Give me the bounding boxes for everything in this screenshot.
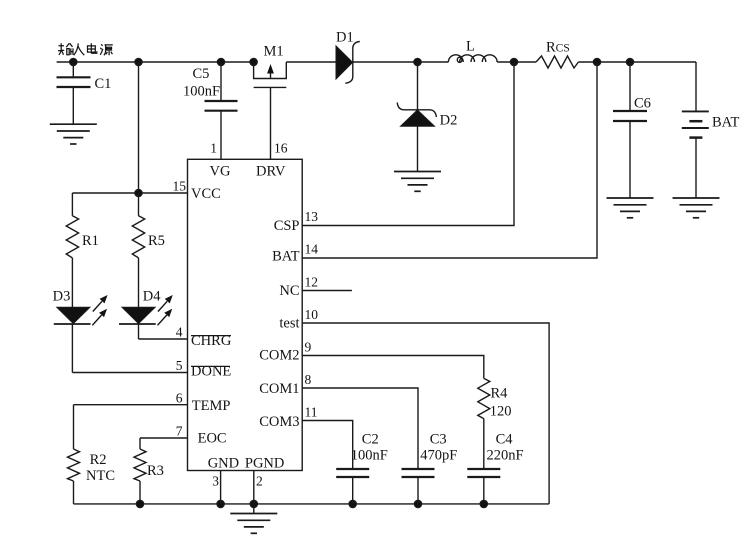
wire COM3 pin11 to C2 xyxy=(302,421,353,470)
svg-text:7: 7 xyxy=(176,424,183,439)
ground below PGND xyxy=(230,514,277,534)
源 xyxy=(100,44,103,55)
label 输入电源 (input power, drawn strokes) xyxy=(58,43,113,55)
overline DONE (active-low) xyxy=(191,365,230,367)
capacitor C5 xyxy=(220,62,222,101)
svg-text:R3: R3 xyxy=(147,463,164,479)
capacitor C1 xyxy=(72,62,74,77)
wire R5 to D4 xyxy=(138,258,140,307)
wire D4 to CHRG pin4 xyxy=(138,324,140,339)
svg-text:220nF: 220nF xyxy=(487,448,524,464)
svg-text:GND: GND xyxy=(208,455,239,471)
svg-text:C3: C3 xyxy=(430,432,447,448)
svg-text:COM1: COM1 xyxy=(259,381,299,397)
wire TEMP pin6 xyxy=(74,404,188,406)
node C6 branch junction xyxy=(626,58,633,65)
ground below battery xyxy=(673,198,720,218)
IC U1 box xyxy=(188,159,303,470)
svg-text:13: 13 xyxy=(305,209,319,224)
wire CSP pin13 to switch node xyxy=(302,62,514,226)
resistor R4 xyxy=(478,378,490,418)
svg-text:C1: C1 xyxy=(95,76,112,92)
svg-text:8: 8 xyxy=(305,372,312,387)
svg-text:11: 11 xyxy=(305,405,318,420)
diode D1 xyxy=(336,46,353,79)
LED D4 xyxy=(122,307,155,323)
node M1 source junction xyxy=(250,58,257,65)
wire L to RCS xyxy=(497,61,536,63)
wire VCC to R1 xyxy=(71,193,73,216)
svg-text:C2: C2 xyxy=(362,432,379,448)
battery BAT xyxy=(695,62,697,111)
输 xyxy=(58,43,64,55)
svg-text:BAT: BAT xyxy=(272,249,300,265)
resistor R3 xyxy=(134,449,146,481)
电 xyxy=(88,43,97,53)
svg-text:D3: D3 xyxy=(53,289,71,305)
capacitor C6 xyxy=(629,62,631,111)
svg-text:9: 9 xyxy=(305,340,312,355)
svg-text:CSP: CSP xyxy=(274,218,300,234)
LED D3 xyxy=(57,307,90,323)
svg-text:5: 5 xyxy=(176,358,183,373)
svg-text:14: 14 xyxy=(305,242,319,257)
wire C5 to VG pin1 xyxy=(220,111,222,160)
wire D1 to L xyxy=(353,61,449,63)
resistor R1 xyxy=(66,216,78,258)
svg-text:D4: D4 xyxy=(143,289,161,305)
svg-text:R4: R4 xyxy=(491,386,509,402)
resistor R5 xyxy=(132,216,144,258)
resistor R2 NTC xyxy=(68,449,80,481)
svg-text:R5: R5 xyxy=(148,233,165,249)
wire COM2 pin9 to R4 xyxy=(302,356,484,379)
inductor L xyxy=(448,55,497,62)
wire VCC branch vertical xyxy=(138,62,140,193)
svg-text:L: L xyxy=(466,39,475,55)
node VCC/R5 junction xyxy=(135,189,142,196)
svg-text:COM3: COM3 xyxy=(259,414,299,430)
wire top input rail xyxy=(57,61,254,63)
wire test pin10 loop xyxy=(302,323,549,504)
svg-text:EOC: EOC xyxy=(198,431,227,447)
svg-text:2: 2 xyxy=(256,474,263,489)
svg-text:PGND: PGND xyxy=(245,455,284,471)
node R3/rail junction xyxy=(136,500,143,507)
wire D3 to DONE pin5 xyxy=(71,324,73,373)
svg-text:4: 4 xyxy=(176,325,183,340)
svg-text:R1: R1 xyxy=(82,233,99,249)
wire R2 to bottom rail xyxy=(73,481,75,504)
svg-text:VG: VG xyxy=(210,164,231,180)
node CSP branch junction xyxy=(510,58,517,65)
svg-text:TEMP: TEMP xyxy=(192,398,231,414)
capacitor C3 xyxy=(402,468,435,470)
svg-text:R2: R2 xyxy=(90,452,107,468)
svg-text:DRV: DRV xyxy=(256,164,286,180)
svg-text:CHRG: CHRG xyxy=(191,333,232,349)
ground below C6 xyxy=(607,198,654,218)
node BAT pin branch junction xyxy=(593,58,600,65)
wire EOC pin7 xyxy=(140,437,188,439)
svg-text:BAT: BAT xyxy=(712,115,740,131)
svg-text:D2: D2 xyxy=(440,113,458,129)
ground below C1 xyxy=(50,124,97,144)
svg-text:NTC: NTC xyxy=(86,468,115,484)
svg-text:C4: C4 xyxy=(496,432,514,448)
wire RCS to battery xyxy=(578,61,696,63)
svg-text:VCC: VCC xyxy=(191,186,221,202)
node C2 junction xyxy=(349,500,356,507)
wire M1 gate to DRV pin16 xyxy=(270,87,272,159)
svg-text:COM2: COM2 xyxy=(259,348,299,364)
svg-text:100nF: 100nF xyxy=(183,84,220,100)
svg-text:470pF: 470pF xyxy=(420,448,457,464)
wire NC pin12 stub xyxy=(302,290,352,292)
入 xyxy=(74,43,85,55)
wire PGND pin2 stub xyxy=(253,471,255,504)
svg-text:10: 10 xyxy=(305,307,319,322)
node input/C1 junction xyxy=(70,58,77,65)
svg-text:120: 120 xyxy=(490,403,512,419)
node C4 junction xyxy=(480,500,487,507)
transistor M1 (PMOS switch) xyxy=(254,62,287,79)
node GND pin3 junction xyxy=(217,500,224,507)
wire bottom ground rail xyxy=(74,503,550,505)
node C3 junction xyxy=(414,500,421,507)
wire R5 branch xyxy=(138,193,140,216)
svg-text:test: test xyxy=(279,316,299,332)
resistor RCS xyxy=(536,56,578,68)
svg-text:D1: D1 xyxy=(336,30,354,46)
wire R4 to C4 xyxy=(483,419,485,469)
capacitor C4 xyxy=(467,468,500,470)
wire COM1 pin8 to C3 xyxy=(302,388,418,469)
diode D2 (freewheel) xyxy=(417,62,419,110)
node PGND pin2 junction xyxy=(250,500,257,507)
svg-text:DONE: DONE xyxy=(191,364,231,380)
wire BAT pin14 to battery node xyxy=(302,62,597,258)
svg-text:16: 16 xyxy=(274,141,288,156)
svg-text:15: 15 xyxy=(173,179,187,194)
svg-text:M1: M1 xyxy=(264,44,284,60)
overline CHRG (active-low) xyxy=(191,335,231,337)
svg-text:C6: C6 xyxy=(634,95,651,111)
wire GND pin3 stub xyxy=(220,471,222,504)
svg-text:3: 3 xyxy=(212,474,219,489)
svg-text:6: 6 xyxy=(176,391,183,406)
svg-text:12: 12 xyxy=(305,275,319,290)
svg-text:100nF: 100nF xyxy=(351,448,388,464)
wire R1 to D3 xyxy=(71,258,73,307)
node VCC branch junction xyxy=(135,58,142,65)
ground below D2 xyxy=(394,172,441,192)
node C5 branch junction xyxy=(217,58,224,65)
wire M1 drain to D1 xyxy=(286,61,336,63)
node D2 junction xyxy=(414,58,421,65)
svg-text:1: 1 xyxy=(210,141,217,156)
capacitor C2 xyxy=(336,468,369,470)
wire VCC pin15 xyxy=(72,192,187,194)
svg-text:NC: NC xyxy=(279,283,299,299)
svg-text:RCS: RCS xyxy=(546,40,570,56)
svg-text:C5: C5 xyxy=(193,66,210,82)
